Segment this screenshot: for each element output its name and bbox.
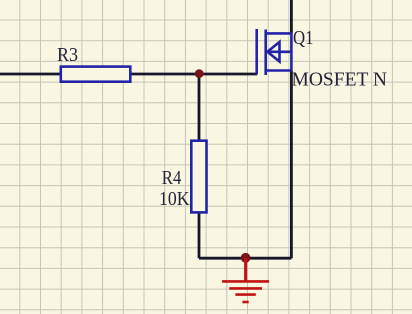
wire drain Q1 [290, 0, 293, 33]
svg-text:R3: R3 [57, 44, 78, 66]
wire R3 to node A [129, 73, 199, 76]
wire left to R3 [0, 73, 62, 76]
svg-text:MOSFET N: MOSFET N [292, 69, 388, 91]
svg-text:10K: 10K [159, 188, 190, 210]
transistor Q1 MOSFET symbol [257, 29, 292, 75]
svg-text:R4: R4 [162, 167, 182, 189]
wire source Q1 [290, 71, 293, 259]
resistor R3 [61, 67, 131, 82]
svg-text:Q1: Q1 [293, 27, 314, 49]
node B junction dot [241, 253, 251, 263]
wire node A down to R4 [198, 74, 201, 142]
wire bottom rail [199, 257, 291, 260]
ground [222, 258, 269, 302]
node A junction dot [195, 69, 204, 78]
wire R4 to bottom rail [198, 212, 201, 258]
wire node A to gate [199, 73, 257, 76]
resistor R4 [191, 141, 206, 213]
